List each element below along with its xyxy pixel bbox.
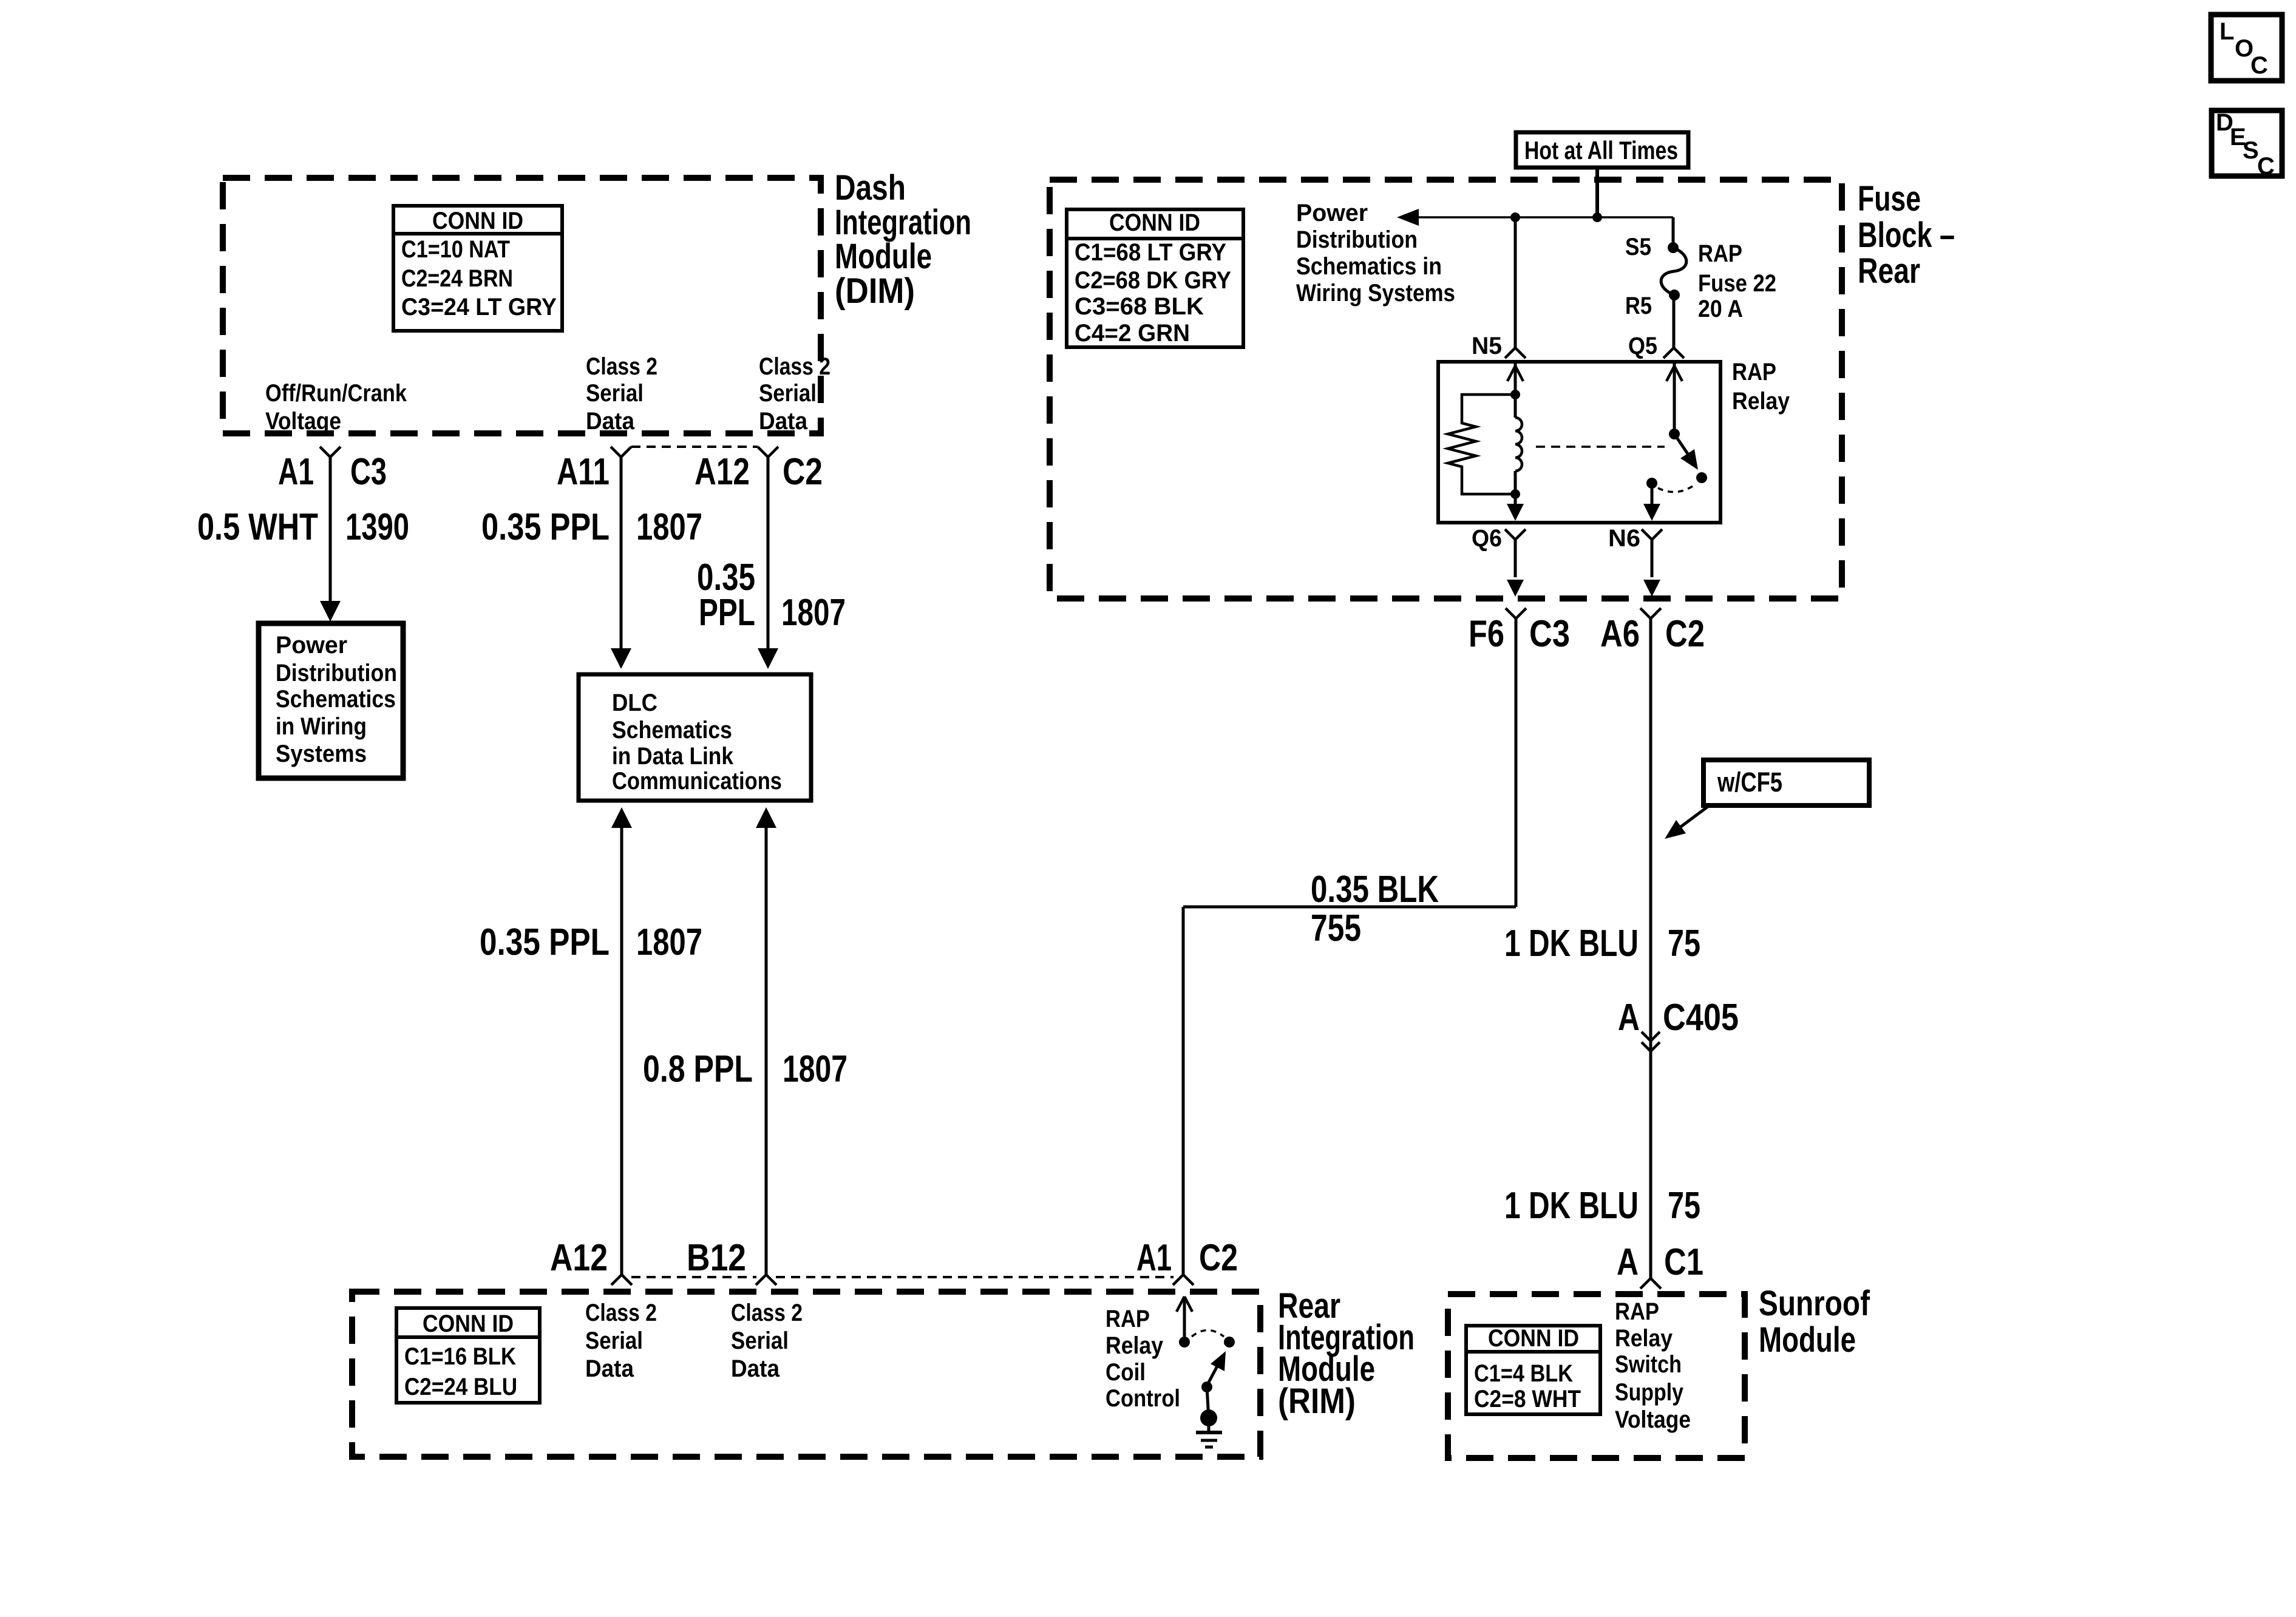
svg-text:CONN ID: CONN ID [1109, 209, 1200, 236]
svg-text:RAP: RAP [1615, 1298, 1659, 1325]
svg-text:in Data Link: in Data Link [612, 743, 733, 770]
svg-text:Coil: Coil [1106, 1359, 1146, 1386]
svg-text:R5: R5 [1625, 293, 1652, 319]
svg-text:N5: N5 [1472, 333, 1502, 359]
svg-text:Supply: Supply [1615, 1379, 1683, 1406]
svg-text:(RIM): (RIM) [1278, 1381, 1356, 1421]
svg-text:B12: B12 [687, 1237, 746, 1279]
svg-text:Voltage: Voltage [1615, 1406, 1691, 1433]
svg-text:C2=68 DK GRY: C2=68 DK GRY [1075, 267, 1231, 294]
svg-text:1 DK BLU: 1 DK BLU [1504, 923, 1639, 964]
svg-text:RAP: RAP [1732, 359, 1776, 385]
svg-text:CONN ID: CONN ID [423, 1310, 514, 1337]
svg-text:S5: S5 [1625, 234, 1651, 260]
svg-text:Module: Module [835, 237, 932, 276]
svg-text:1807: 1807 [781, 592, 846, 634]
svg-text:Schematics in: Schematics in [1296, 253, 1442, 280]
svg-text:Systems: Systems [276, 741, 367, 767]
svg-text:A12: A12 [695, 451, 750, 493]
svg-text:A1: A1 [278, 451, 314, 493]
svg-text:C2: C2 [1665, 613, 1705, 655]
svg-text:C405: C405 [1663, 997, 1739, 1039]
svg-text:RAP: RAP [1106, 1306, 1150, 1332]
svg-text:Fuse 22: Fuse 22 [1698, 270, 1776, 297]
svg-text:Hot at All Times: Hot at All Times [1524, 136, 1678, 164]
svg-text:Switch: Switch [1615, 1351, 1682, 1378]
svg-text:C1=68 LT GRY: C1=68 LT GRY [1075, 239, 1226, 266]
svg-text:0.5 WHT: 0.5 WHT [197, 506, 318, 548]
svg-text:Voltage: Voltage [265, 408, 341, 435]
svg-text:Data: Data [585, 1355, 634, 1382]
svg-text:C1=16 BLK: C1=16 BLK [404, 1343, 516, 1370]
svg-text:Class 2: Class 2 [585, 1300, 657, 1326]
svg-text:F6: F6 [1469, 613, 1504, 655]
svg-text:A: A [1618, 997, 1640, 1039]
svg-text:Communications: Communications [612, 768, 782, 795]
svg-text:0.8 PPL: 0.8 PPL [643, 1048, 753, 1090]
svg-text:Distribution: Distribution [1296, 226, 1418, 253]
svg-text:A1: A1 [1136, 1237, 1172, 1279]
svg-text:C1=4 BLK: C1=4 BLK [1474, 1360, 1573, 1387]
svg-text:A11: A11 [557, 451, 610, 493]
svg-text:Wiring Systems: Wiring Systems [1296, 280, 1455, 307]
svg-text:DLC: DLC [612, 690, 657, 716]
svg-text:S: S [2243, 137, 2259, 164]
svg-text:Class 2: Class 2 [759, 353, 830, 380]
svg-text:CONN ID: CONN ID [1488, 1325, 1579, 1352]
svg-text:Data: Data [731, 1355, 780, 1382]
svg-text:Data: Data [759, 408, 808, 435]
svg-text:1390: 1390 [345, 506, 409, 548]
svg-text:1807: 1807 [783, 1048, 847, 1090]
svg-text:Class 2: Class 2 [586, 353, 657, 380]
svg-text:1 DK BLU: 1 DK BLU [1504, 1185, 1639, 1227]
svg-text:C3: C3 [350, 451, 387, 493]
svg-text:(DIM): (DIM) [835, 271, 915, 311]
svg-text:Off/Run/Crank: Off/Run/Crank [265, 380, 407, 407]
svg-text:C2=24 BRN: C2=24 BRN [401, 265, 513, 292]
svg-text:N6: N6 [1608, 525, 1640, 552]
svg-text:75: 75 [1668, 1185, 1700, 1227]
svg-text:C1=10 NAT: C1=10 NAT [401, 236, 510, 263]
svg-text:Block –: Block – [1858, 215, 1955, 255]
svg-text:Data: Data [586, 408, 635, 435]
svg-text:C4=2 GRN: C4=2 GRN [1075, 320, 1190, 347]
svg-text:C2: C2 [1199, 1237, 1238, 1279]
svg-text:0.35 PPL: 0.35 PPL [480, 921, 610, 963]
svg-text:Relay: Relay [1106, 1332, 1163, 1359]
svg-text:75: 75 [1668, 923, 1700, 964]
svg-text:Schematics: Schematics [612, 717, 732, 744]
svg-text:RAP: RAP [1698, 240, 1742, 267]
svg-text:A: A [1617, 1241, 1639, 1283]
svg-text:Serial: Serial [759, 380, 817, 407]
svg-text:Control: Control [1106, 1385, 1180, 1412]
svg-text:CONN ID: CONN ID [432, 208, 523, 234]
svg-text:Distribution: Distribution [276, 660, 397, 686]
svg-text:Q6: Q6 [1472, 525, 1502, 552]
svg-text:C3: C3 [1529, 613, 1570, 655]
svg-text:1807: 1807 [636, 506, 702, 548]
svg-text:A6: A6 [1600, 613, 1640, 655]
svg-text:0.35 BLK: 0.35 BLK [1311, 869, 1439, 910]
svg-text:C: C [2250, 52, 2268, 79]
svg-text:Relay: Relay [1732, 388, 1790, 415]
svg-text:Fuse: Fuse [1858, 179, 1921, 219]
svg-text:Sunroof: Sunroof [1759, 1284, 1870, 1323]
svg-text:Serial: Serial [731, 1327, 789, 1354]
svg-text:Q5: Q5 [1628, 333, 1657, 359]
svg-text:Power: Power [1296, 200, 1368, 226]
svg-text:Module: Module [1759, 1320, 1856, 1360]
svg-text:Rear: Rear [1858, 251, 1920, 291]
svg-text:Power: Power [276, 632, 347, 659]
svg-text:C3=24 LT GRY: C3=24 LT GRY [401, 294, 557, 320]
svg-text:Serial: Serial [586, 380, 644, 407]
svg-text:A12: A12 [550, 1237, 608, 1279]
svg-text:C3=68 BLK: C3=68 BLK [1075, 293, 1204, 320]
svg-text:Class 2: Class 2 [731, 1300, 803, 1326]
svg-text:1807: 1807 [636, 921, 702, 963]
svg-text:w/CF5: w/CF5 [1717, 767, 1782, 798]
svg-text:L: L [2220, 18, 2234, 45]
svg-text:C2: C2 [783, 451, 823, 493]
svg-text:PPL: PPL [699, 592, 755, 634]
svg-text:in Wiring: in Wiring [276, 713, 367, 740]
svg-text:20 A: 20 A [1698, 296, 1743, 322]
svg-text:0.35 PPL: 0.35 PPL [481, 506, 610, 548]
svg-text:Schematics: Schematics [276, 686, 396, 713]
svg-text:C1: C1 [1664, 1241, 1703, 1283]
svg-text:C: C [2257, 153, 2275, 180]
svg-text:C2=24 BLU: C2=24 BLU [404, 1374, 517, 1400]
svg-text:755: 755 [1311, 907, 1361, 949]
svg-text:Dash: Dash [835, 168, 906, 208]
svg-text:Relay: Relay [1615, 1325, 1673, 1352]
svg-text:C2=8 WHT: C2=8 WHT [1474, 1386, 1581, 1412]
svg-text:Serial: Serial [585, 1327, 643, 1354]
